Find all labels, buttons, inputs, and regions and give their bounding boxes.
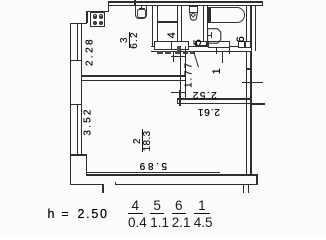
- room1 bottom wall bottom line: [177, 103, 251, 104]
- toilet diamond: [190, 12, 196, 18]
- wire: top wall step at kitchen: [108, 1, 109, 11]
- wire: left wall tick y60: [70, 60, 82, 61]
- vent box B3: [171, 41, 189, 50]
- legend fraction 4/0.4: [128, 200, 143, 227]
- vent box B6: [238, 41, 252, 47]
- wall closet4|wc5 right line: [181, 5, 182, 46]
- bottom outer line C: [115, 184, 258, 185]
- wire: left wall inner lower segment: [86, 154, 87, 173]
- label room1: [216, 70, 218, 72]
- wire: top exterior wall outer line: [108, 1, 264, 2]
- legend fraction 6/2.1: [172, 200, 186, 227]
- stove burner 1: [93, 14, 97, 18]
- stair stub left: [243, 185, 244, 193]
- label room6: [240, 38, 242, 40]
- stove burner 3: [93, 21, 97, 25]
- kitchen sink outline: [135, 6, 147, 19]
- threshold dash 3: [175, 51, 180, 53]
- washbasin outline: [207, 28, 222, 45]
- wall bath6 right inner line: [246, 5, 247, 46]
- stove: [90, 12, 105, 28]
- bottom band right cap: [256, 174, 257, 185]
- bottom outer left segment: [70, 184, 103, 185]
- stove burner 2: [99, 14, 103, 18]
- wall bath6 right outer line: [250, 5, 251, 46]
- wire: left exterior wall outer line: [70, 23, 71, 185]
- door leaf small line: [173, 51, 174, 62]
- vent box B6 divider: [244, 41, 245, 48]
- washbasin tap vertical: [211, 32, 212, 38]
- stove burner 4: [99, 21, 103, 25]
- bottom outer corner vertical: [102, 184, 103, 194]
- wall kitchen|closet4 left line: [152, 5, 153, 46]
- right wall inner line lower: [246, 51, 247, 175]
- bath door tick left: [216, 48, 217, 54]
- dim tick right of wall: [250, 103, 264, 104]
- dim tick 1.77 lower: [171, 92, 186, 93]
- room2 bottom wall line A: [86, 172, 220, 173]
- toilet bowl: [189, 12, 198, 21]
- room1 bottom wall left cap: [177, 98, 178, 104]
- threshold dash 4: [183, 51, 188, 53]
- door box bath B5: [208, 41, 230, 47]
- threshold dash 1: [157, 51, 163, 53]
- wire: left wall tick y22.6: [70, 23, 87, 24]
- wall kitchen|closet4 right line: [157, 5, 158, 46]
- entrance tick upper: [246, 68, 253, 69]
- wall room2|room1 right line: [185, 46, 186, 99]
- bottom outer line C left notch: [115, 182, 116, 185]
- wall band above room1 bottom line: [151, 51, 251, 52]
- dim text 2.61 upside down: [196, 106, 221, 117]
- legend fraction 5/1.1: [150, 200, 164, 227]
- wall wc5|bath6 right line: [207, 5, 208, 46]
- right wall outer line lower: [250, 51, 251, 175]
- kitchen sink faucet stem: [141, 6, 142, 9]
- dim text 5.89 upside down: [139, 160, 167, 171]
- vent box B2: [154, 41, 173, 50]
- door leaf of wc5: [193, 51, 199, 68]
- wall kitchen|room2 bottom line: [81, 80, 185, 81]
- wire: top exterior wall inner line: [108, 5, 264, 6]
- bath door leaf: [222, 51, 223, 63]
- label room5: [197, 41, 199, 43]
- legend fraction 1/4.5: [194, 200, 210, 227]
- dim text 2.28: [89, 51, 91, 53]
- wire: window glass line lower window: [77, 104, 78, 154]
- wire: left exterior wall inner line: [81, 23, 82, 156]
- note h = 2.50: [48, 207, 55, 221]
- wire: kitchen upper-left corner vertical: [86, 11, 87, 24]
- bath door tick right: [229, 48, 230, 54]
- wall wc5|bath6 left line: [203, 5, 204, 46]
- label room4: [171, 34, 173, 36]
- dim text 3.52: [87, 121, 89, 123]
- toilet tank: [189, 6, 199, 13]
- threshold dash 5: [190, 51, 195, 53]
- wall stair strip left line: [251, 5, 252, 51]
- vent box B4: [195, 41, 207, 46]
- dim text 2.52 upside down: [191, 89, 217, 100]
- bathtub outline: [208, 7, 245, 23]
- wire: kitchen top wall: [86, 11, 109, 12]
- vent junction fill: [177, 46, 181, 51]
- wire: top wall right end cap: [262, 1, 263, 6]
- threshold dash 2: [165, 51, 171, 53]
- wall band above room1 top line: [151, 46, 251, 47]
- kitchen sink bowl: [137, 9, 145, 18]
- entrance tick lower: [242, 82, 263, 83]
- wall stair strip right line: [255, 5, 256, 51]
- wire: tick above top wall at sink: [134, 0, 135, 5]
- stair stub right: [248, 185, 249, 193]
- wall closet4|wc5 left line: [177, 5, 178, 46]
- bathtub head bar: [208, 7, 211, 23]
- room1 bottom wall top line: [177, 98, 251, 99]
- label room2 fraction 2/18.3: [142, 140, 144, 142]
- wire: left wall tick y104.4: [70, 104, 82, 105]
- shelf line in closet 4: [157, 21, 177, 22]
- wire: window glass line upper window: [77, 23, 78, 61]
- dim tick at x179.6: [179, 90, 180, 106]
- room2 bottom wall left corner vertical: [86, 172, 87, 175]
- kitchen sink faucet bar: [139, 8, 145, 9]
- wire: left wall tick y154.6: [70, 154, 87, 155]
- dim text 1.77: [188, 74, 190, 76]
- label room3 fraction 3/6.2: [129, 39, 131, 41]
- wall room2|room1 left line: [180, 46, 181, 99]
- wall kitchen|room2 top line: [81, 75, 185, 76]
- washbasin tap bar: [208, 35, 212, 36]
- room2 bottom wall line B: [86, 174, 258, 175]
- dim tick 1.77 upper: [171, 56, 186, 57]
